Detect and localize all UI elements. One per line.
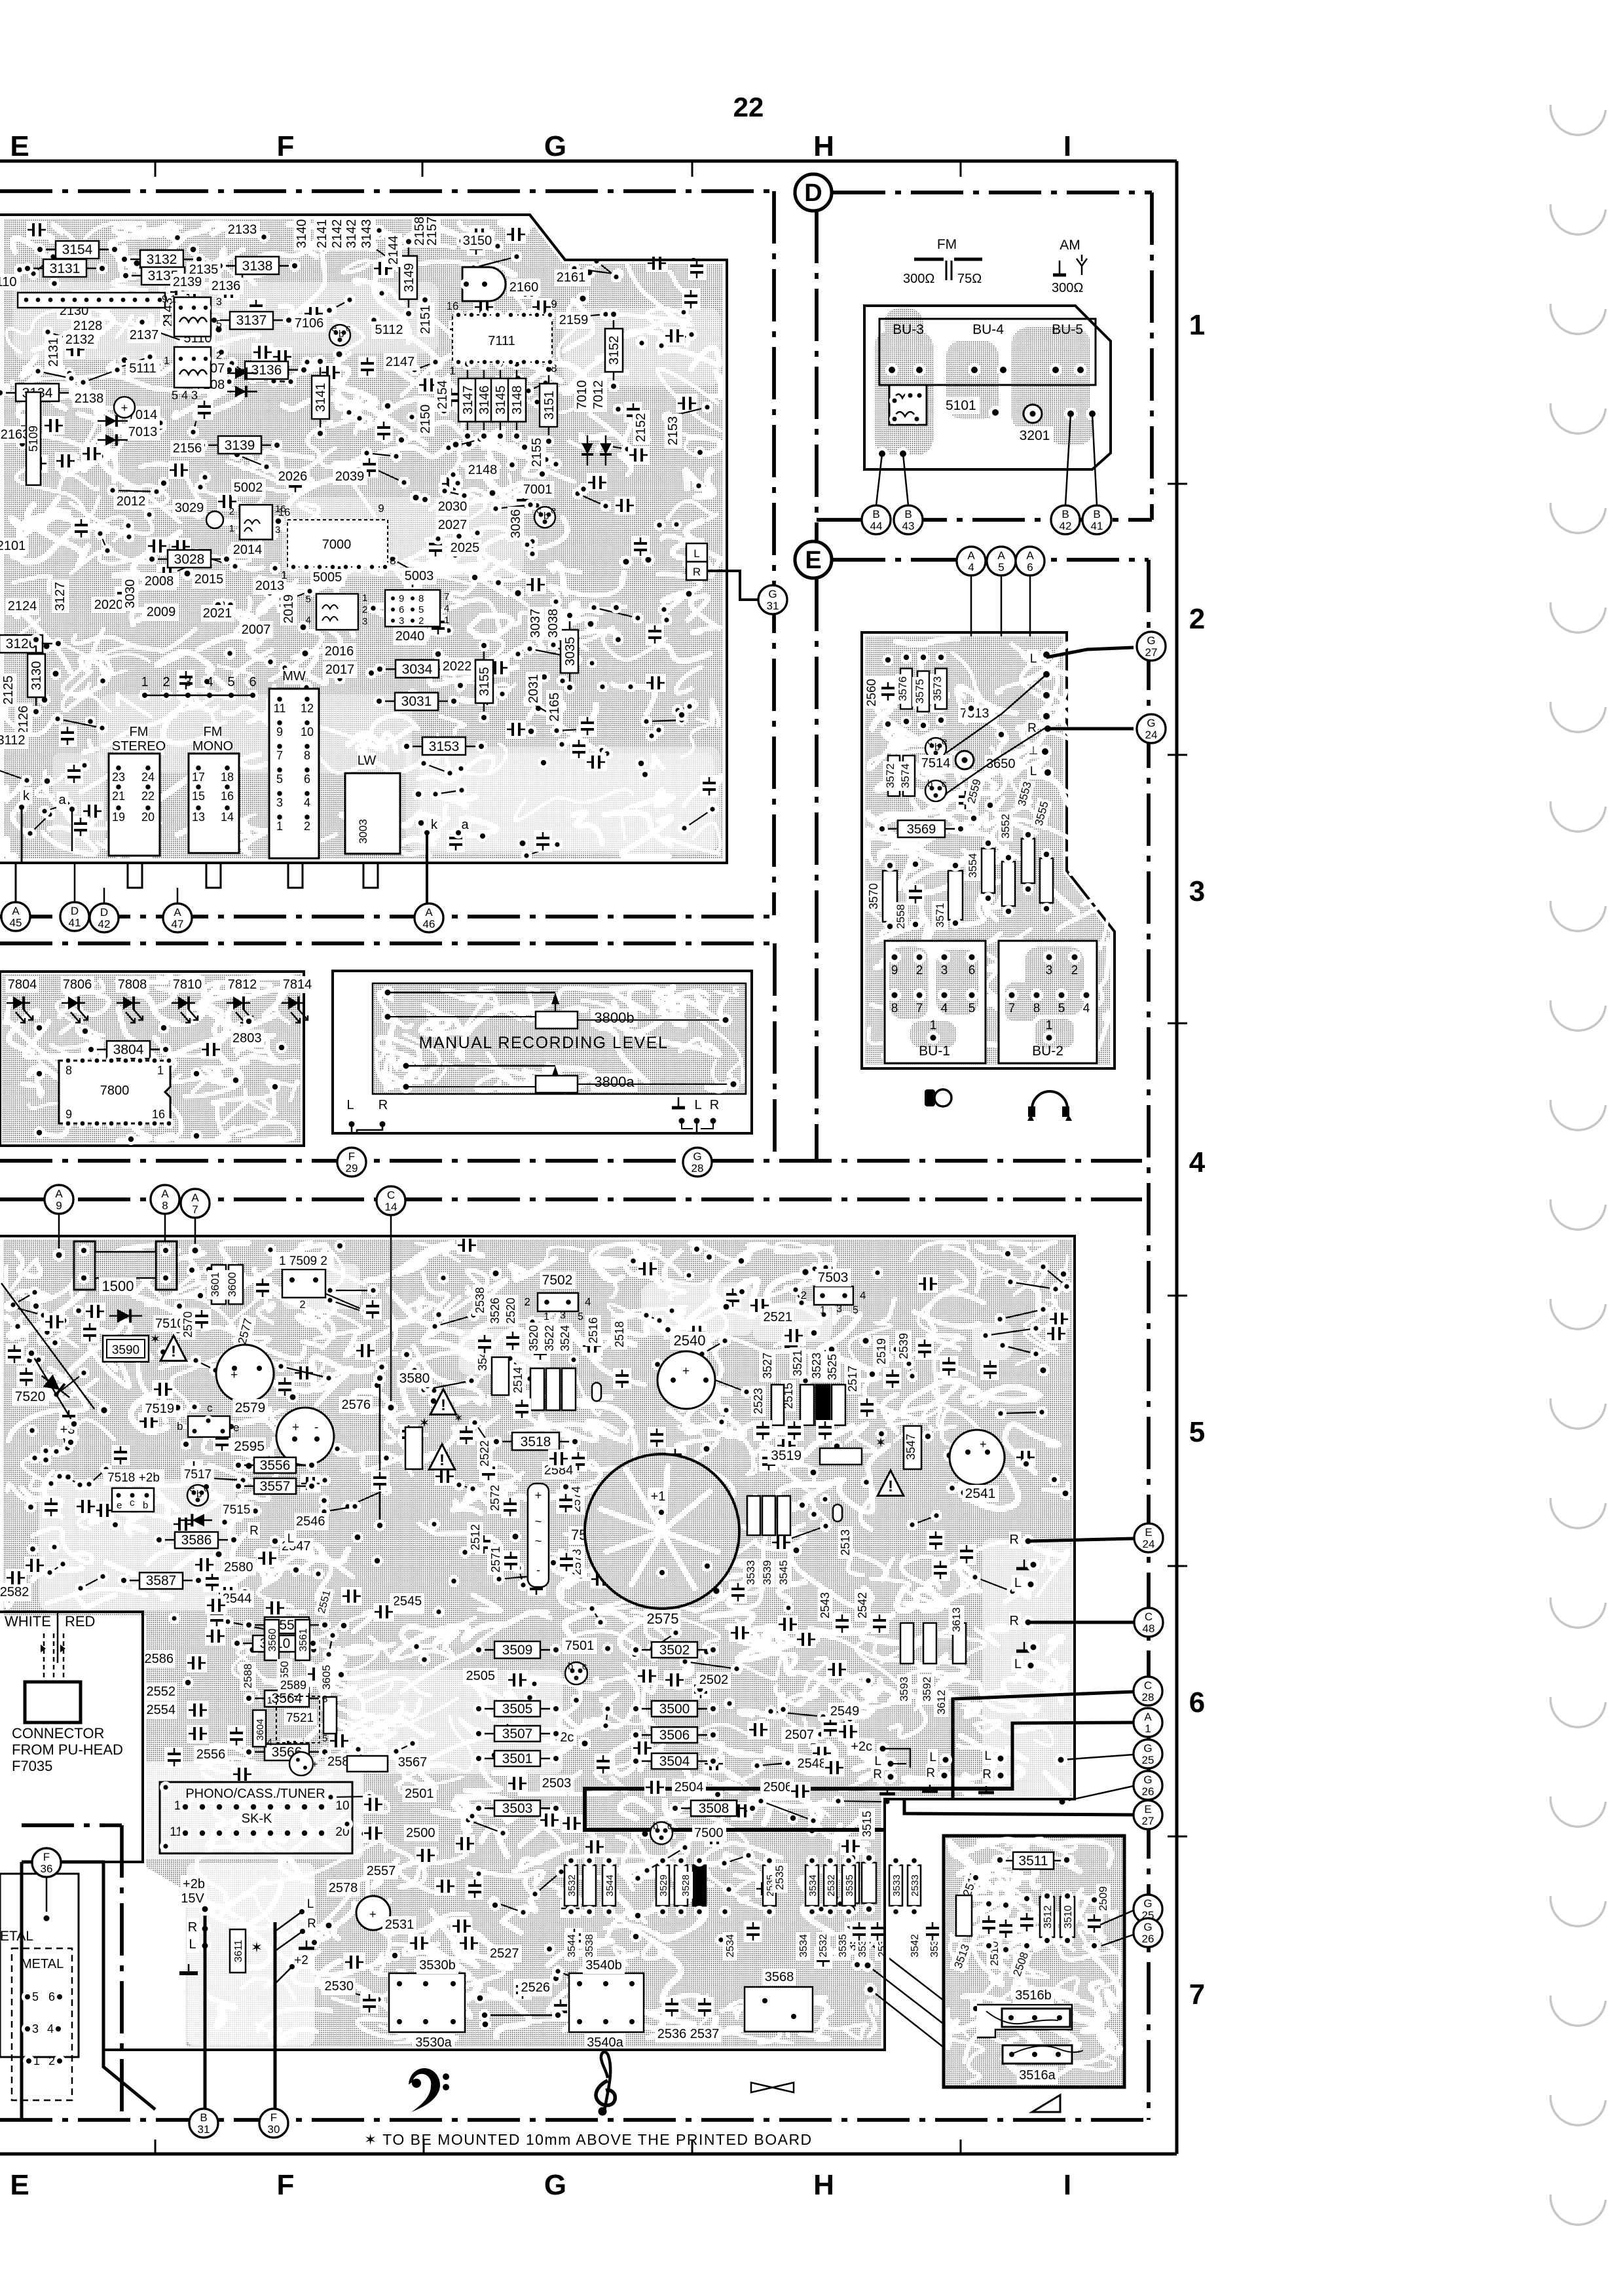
label LW: [357, 752, 376, 769]
section border metal right: [120, 1825, 124, 2120]
resistor pad: [583, 1865, 596, 1906]
svg-text:2531: 2531: [385, 1918, 415, 1932]
svg-text:2139: 2139: [173, 275, 202, 289]
svg-text:-: -: [536, 1563, 540, 1576]
pot 3650: [955, 751, 974, 769]
svg-text:3561: 3561: [298, 1628, 309, 1652]
svg-text:L: L: [189, 1937, 196, 1952]
resistor 3130: [35, 641, 37, 710]
connector BU-3 inner: [879, 319, 1096, 385]
svg-text:R: R: [378, 1098, 388, 1112]
resistor 3556: [240, 1465, 310, 1467]
label 5005: [310, 569, 344, 586]
node k right: [428, 816, 440, 833]
svg-text:45: 45: [10, 917, 22, 929]
svg-text:2021: 2021: [203, 606, 232, 621]
transistor 7500: [650, 1822, 673, 1844]
svg-text:3510: 3510: [1063, 1905, 1074, 1929]
svg-text:6: 6: [969, 964, 976, 977]
connector FM MONO: [203, 723, 222, 740]
cap 2505: [463, 1667, 497, 1685]
resistor 3553b: [1022, 839, 1035, 883]
svg-text:2505: 2505: [466, 1669, 496, 1683]
svg-text:BU-4: BU-4: [972, 322, 1004, 337]
node R: [873, 1766, 884, 1782]
ref B42: [1051, 505, 1080, 534]
svg-text:3544: 3544: [604, 1874, 616, 1896]
svg-text:b: b: [196, 1489, 202, 1500]
svg-text:7: 7: [192, 1203, 198, 1216]
LED 7808: [115, 976, 149, 993]
antenna connector board: [864, 306, 1111, 469]
svg-text:3527: 3527: [761, 1353, 774, 1379]
label 3612: [934, 1688, 949, 1717]
label 2152: [633, 410, 650, 445]
svg-text:A: A: [174, 906, 181, 919]
svg-text:b: b: [934, 742, 940, 753]
svg-text:L: L: [307, 1897, 314, 1911]
resistor 3586: [160, 1539, 232, 1541]
svg-text:3519: 3519: [771, 1448, 802, 1463]
svg-text:3155: 3155: [477, 667, 492, 697]
svg-text:+1: +1: [651, 1489, 666, 1504]
svg-text:A: A: [1144, 1711, 1152, 1723]
svg-text:3542: 3542: [910, 1934, 921, 1958]
connector SK-K PHONO/CASS/TUNER: [160, 1782, 352, 1853]
label 2007: [239, 621, 273, 638]
ref A8: [151, 1185, 179, 1214]
node a right: [459, 816, 471, 833]
svg-text:b: b: [339, 329, 344, 340]
resistor 3529: [656, 1865, 669, 1906]
svg-text:L: L: [1014, 1576, 1022, 1590]
svg-text:2160: 2160: [509, 280, 539, 295]
warning triangles: [430, 1389, 456, 1415]
svg-text:2558: 2558: [895, 904, 907, 929]
svg-text:BU-5: BU-5: [1052, 322, 1083, 337]
svg-text:3151: 3151: [542, 391, 557, 420]
resistor 3137: [215, 319, 287, 321]
svg-text:6: 6: [48, 1990, 55, 2003]
wire 7513 diag: [946, 676, 1045, 753]
section border D right: [1150, 192, 1154, 520]
section border row4: [0, 1159, 1142, 1163]
svg-text:48: 48: [1143, 1622, 1155, 1635]
label 2525b caps: [744, 1921, 762, 1942]
ref A47: [163, 903, 192, 932]
svg-text:7812: 7812: [228, 977, 257, 992]
svg-text:2165: 2165: [547, 693, 562, 722]
label 2139: [170, 274, 204, 291]
resistor 3134: [1, 392, 73, 394]
svg-text:2502: 2502: [699, 1673, 729, 1687]
resistor 3533: [889, 1865, 902, 1906]
svg-text:4: 4: [968, 561, 974, 574]
svg-text:7: 7: [916, 1002, 923, 1015]
section border amp top: [0, 1197, 1142, 1201]
svg-text:8: 8: [162, 1199, 168, 1212]
capacitor 2803: [200, 1040, 221, 1059]
svg-text:1: 1: [33, 2054, 40, 2068]
svg-text:3539: 3539: [761, 1560, 773, 1585]
svg-text:2517: 2517: [846, 1366, 859, 1392]
svg-text:5: 5: [306, 594, 311, 605]
label 3552: [998, 812, 1013, 841]
label 3112: [0, 732, 28, 749]
transistor 7513: [925, 738, 946, 759]
svg-text:3145: 3145: [494, 386, 508, 415]
label 2008: [142, 573, 176, 590]
svg-text:300Ω: 300Ω: [903, 272, 934, 286]
svg-text:3533: 3533: [891, 1874, 902, 1896]
svg-text:3528: 3528: [680, 1874, 692, 1896]
label 2143: [160, 295, 177, 329]
svg-text:L: L: [693, 547, 699, 560]
label 2019: [280, 592, 297, 626]
svg-text:3138: 3138: [242, 259, 273, 274]
svg-text:31: 31: [198, 2123, 210, 2136]
ref circles re-draw: [1, 902, 30, 931]
svg-text:2019: 2019: [282, 594, 296, 624]
resistor 3138: [221, 265, 293, 267]
svg-text:3136: 3136: [251, 363, 282, 378]
label 3036: [507, 507, 525, 541]
svg-text:1: 1: [229, 523, 234, 534]
label 2535: [772, 1863, 787, 1893]
label MW: [284, 668, 303, 685]
svg-text:2595: 2595: [234, 1439, 265, 1454]
svg-text:31: 31: [767, 600, 779, 612]
svg-text:L: L: [1014, 1657, 1022, 1671]
svg-text:14: 14: [221, 811, 234, 824]
label 3515: [859, 1808, 875, 1840]
cap 2508: [1018, 1912, 1036, 1933]
wire to E24: [1028, 1539, 1134, 1541]
label 7012: [590, 378, 607, 412]
svg-text:1: 1: [444, 615, 449, 626]
svg-text:FM: FM: [937, 237, 957, 252]
label 2584: [542, 1462, 576, 1479]
resistor 3035: [569, 617, 571, 686]
label 2133: [225, 221, 259, 238]
headphones icon: [1032, 1091, 1067, 1109]
svg-text:!: !: [888, 1478, 893, 1495]
svg-text:D: D: [71, 905, 79, 917]
resistor 3141: [320, 363, 322, 432]
capacitor 2558: [906, 884, 925, 905]
pads L R to G refs: [1040, 648, 1053, 661]
wire to G25: [1061, 1755, 1134, 1760]
IC 7521: [276, 1696, 320, 1743]
copper blobs: [874, 308, 1094, 455]
resistor 3569: [883, 828, 959, 830]
svg-text:B: B: [1061, 508, 1069, 520]
svg-text:7806: 7806: [63, 977, 92, 992]
svg-text:5112: 5112: [375, 323, 403, 337]
svg-text:3: 3: [1189, 875, 1205, 907]
svg-text:7810: 7810: [173, 977, 202, 992]
svg-text:3575: 3575: [913, 679, 926, 704]
svg-text:3: 3: [184, 675, 191, 689]
svg-text:27: 27: [1145, 646, 1158, 659]
warning triangle: [877, 1470, 904, 1496]
ref G31: [758, 585, 787, 614]
svg-text:2541: 2541: [965, 1486, 996, 1501]
svg-text:c: c: [582, 1661, 587, 1672]
svg-text:8: 8: [891, 1002, 898, 1015]
svg-text:✶ TO BE MOUNTED 10mm ABOVE: ✶ TO BE MOUNTED 10mm ABOVE THE PRINTED B…: [364, 2131, 813, 2148]
label 3542: [908, 1932, 922, 1960]
ref A7: [181, 1189, 210, 1218]
border ruler top: [0, 160, 1177, 163]
svg-text:3587: 3587: [146, 1573, 177, 1588]
svg-text:2579: 2579: [235, 1400, 266, 1415]
ground: [887, 1787, 889, 1794]
svg-text:4: 4: [941, 1002, 948, 1015]
svg-text:3530b: 3530b: [419, 1958, 456, 1973]
svg-text:3572: 3572: [884, 763, 896, 788]
big cap 2575: [585, 1454, 739, 1609]
svg-text:2539: 2539: [897, 1333, 910, 1359]
svg-text:RED: RED: [65, 1613, 95, 1630]
svg-text:2008: 2008: [145, 574, 174, 589]
svg-text:2161: 2161: [557, 270, 586, 285]
ref C14: [377, 1186, 405, 1215]
svg-text:A: A: [967, 549, 975, 562]
wires from A4 A5 A6: [970, 575, 972, 707]
svg-text:AM: AM: [1060, 238, 1080, 253]
node R3: [982, 1766, 993, 1782]
svg-text:B: B: [200, 2111, 207, 2124]
svg-text:3: 3: [32, 2022, 39, 2035]
resistor 3534: [805, 1865, 819, 1906]
svg-text:2156: 2156: [173, 441, 202, 456]
label 3533: [855, 1932, 870, 1960]
label 2516: [585, 1315, 601, 1346]
svg-text:2016: 2016: [325, 644, 354, 659]
svg-text:6: 6: [1189, 1686, 1205, 1719]
svg-text:FROM PU-HEAD: FROM PU-HEAD: [12, 1741, 123, 1758]
svg-text:3035: 3035: [563, 637, 578, 666]
resistor 3151: [548, 371, 550, 440]
resistor 3149: [408, 243, 410, 312]
svg-text:2152: 2152: [634, 413, 648, 443]
wire from C14: [390, 1215, 392, 1408]
svg-text:7804: 7804: [8, 977, 37, 992]
treble clef: [596, 2052, 615, 2115]
svg-text:3140: 3140: [295, 219, 309, 249]
svg-text:B: B: [1093, 508, 1100, 520]
svg-text:2148: 2148: [468, 463, 498, 477]
svg-text:2575: 2575: [647, 1611, 679, 1627]
svg-text:3533: 3533: [745, 1560, 757, 1585]
svg-text:2159: 2159: [559, 313, 589, 327]
svg-text:3601: 3601: [209, 1272, 221, 1297]
svg-text:3500: 3500: [659, 1702, 690, 1717]
svg-text:2535: 2535: [773, 1865, 786, 1890]
label 3580: [397, 1370, 433, 1387]
label 2131: [45, 335, 62, 369]
svg-text:2: 2: [362, 604, 367, 615]
cap 2531: [409, 1934, 430, 1952]
ref C28: [1134, 1677, 1162, 1705]
label 7110: [0, 274, 20, 291]
label 7000: [310, 538, 344, 555]
labels 2550 2588 2589 3605: [277, 1659, 292, 1688]
svg-text:2: 2: [229, 506, 234, 517]
svg-text:E: E: [10, 130, 29, 162]
ground2: [929, 1785, 931, 1791]
svg-text:METAL: METAL: [21, 1957, 64, 1971]
svg-text:7110: 7110: [0, 275, 17, 289]
svg-text:3521: 3521: [791, 1350, 804, 1376]
svg-text:2124: 2124: [8, 599, 37, 613]
svg-text:1: 1: [164, 355, 170, 367]
svg-text:c: c: [346, 323, 351, 334]
IC 7502: [538, 1293, 578, 1311]
svg-text:G: G: [1147, 634, 1155, 647]
svg-text:42: 42: [98, 918, 111, 930]
svg-text:3029: 3029: [175, 501, 204, 515]
svg-text:7520: 7520: [15, 1389, 46, 1404]
svg-text:3613: 3613: [950, 1607, 963, 1632]
svg-text:B: B: [904, 508, 912, 520]
svg-text:3532: 3532: [566, 1874, 578, 1896]
svg-text:13: 13: [192, 811, 205, 824]
wire from A8: [164, 1214, 166, 1247]
label 2128: [71, 318, 105, 335]
svg-text:1: 1: [1189, 309, 1205, 341]
svg-text:5: 5: [418, 604, 424, 615]
svg-text:3557: 3557: [260, 1479, 291, 1494]
svg-text:2154: 2154: [435, 380, 450, 410]
svg-text:28: 28: [692, 1162, 704, 1175]
ref G26: [1134, 1771, 1162, 1800]
svg-text:7521: 7521: [286, 1711, 314, 1725]
svg-text:46: 46: [423, 918, 435, 930]
ref G28: [683, 1148, 712, 1176]
wire 3530-3540: [485, 2014, 558, 2016]
section border E right / wire bus: [1147, 560, 1151, 2120]
labels 3502 2502 3500 3506 3504: [637, 1649, 712, 1651]
svg-text:5: 5: [216, 319, 222, 330]
warning triangle: [160, 1336, 187, 1361]
svg-text:BU-2: BU-2: [1032, 1044, 1063, 1059]
svg-text:3: 3: [362, 616, 367, 627]
svg-text:4: 4: [304, 796, 310, 809]
svg-text:A: A: [425, 906, 433, 919]
svg-text:2133: 2133: [228, 223, 257, 237]
svg-text:3556: 3556: [260, 1458, 291, 1473]
svg-text:3516a: 3516a: [1019, 2068, 1056, 2083]
wire to E27: [904, 1799, 1134, 1815]
svg-text:A: A: [161, 1188, 169, 1200]
resistors 3593 3592: [900, 1623, 913, 1664]
svg-text:7502: 7502: [542, 1273, 573, 1288]
resistor 2525: [1025, 1865, 1039, 1906]
ref D42: [90, 903, 119, 932]
svg-text:3509: 3509: [502, 1643, 533, 1658]
label 2135: [187, 261, 221, 278]
svg-text:3152: 3152: [607, 336, 621, 365]
svg-text:7814: 7814: [283, 977, 312, 992]
svg-text:3604: 3604: [255, 1719, 266, 1740]
svg-text:2512: 2512: [469, 1524, 482, 1550]
svg-text:2572: 2572: [489, 1485, 502, 1511]
resistor 3155: [483, 647, 485, 716]
svg-text:2542: 2542: [856, 1592, 869, 1618]
svg-text:1 7509 2: 1 7509 2: [279, 1254, 327, 1268]
svg-text:3612: 3612: [935, 1690, 948, 1715]
svg-text:3523: 3523: [810, 1353, 823, 1379]
resistor 3518: [498, 1441, 574, 1443]
wires up from refs: [15, 864, 17, 902]
ref A45: [1, 902, 30, 931]
svg-text:L: L: [287, 1532, 295, 1546]
svg-text:3037: 3037: [528, 609, 543, 638]
svg-text:G: G: [1143, 1774, 1152, 1786]
ref A1: [1134, 1708, 1162, 1737]
svg-text:G: G: [1147, 717, 1155, 729]
svg-text:2519: 2519: [875, 1338, 888, 1364]
IC 7503: [814, 1286, 853, 1305]
svg-text:2545: 2545: [393, 1594, 422, 1609]
svg-text:⊥: ⊥: [1029, 744, 1039, 757]
svg-text:2532: 2532: [826, 1874, 837, 1896]
svg-text:2544: 2544: [223, 1592, 252, 1606]
resistor 3604: [253, 1710, 266, 1747]
cap 2541: [950, 1430, 1005, 1485]
svg-text:2506: 2506: [764, 1780, 793, 1795]
svg-text:WHITE: WHITE: [5, 1613, 51, 1630]
svg-text:3526: 3526: [489, 1298, 502, 1324]
wire from A7: [194, 1218, 196, 1250]
svg-text:A: A: [12, 905, 20, 917]
svg-text:3507: 3507: [502, 1726, 533, 1741]
IC 7518: [112, 1488, 154, 1512]
svg-text:R: R: [307, 1917, 316, 1931]
ref A5: [987, 547, 1016, 575]
copper area: [866, 636, 1111, 1065]
ref B31: [189, 2109, 218, 2138]
svg-text:2526: 2526: [521, 1980, 551, 1995]
svg-text:4: 4: [47, 2022, 54, 2035]
section border E top: [833, 558, 1149, 562]
label 2126: [15, 703, 32, 737]
svg-text:MONO: MONO: [193, 739, 233, 754]
svg-text:7: 7: [444, 591, 449, 602]
svg-text:7510: 7510: [155, 1317, 185, 1331]
svg-text:FM: FM: [204, 725, 223, 739]
switch 3516b: [977, 2005, 1072, 2037]
IC 7800: [59, 1061, 170, 1123]
svg-text:-: -: [314, 1421, 318, 1434]
label 7111: [478, 327, 512, 344]
svg-text:L: L: [929, 1751, 936, 1764]
coil 2516: [592, 1383, 601, 1401]
svg-text:3148: 3148: [510, 386, 525, 415]
svg-text:3143: 3143: [360, 219, 374, 249]
resistor 3509: [480, 1649, 555, 1651]
svg-text:MW: MW: [282, 669, 306, 683]
svg-text:2040: 2040: [396, 629, 425, 644]
svg-text:2582: 2582: [0, 1585, 29, 1599]
resistor 3148: [516, 365, 518, 435]
svg-text:3153: 3153: [429, 739, 460, 754]
label 2148: [466, 462, 500, 479]
svg-text:16: 16: [275, 503, 286, 515]
svg-text:8: 8: [1033, 1002, 1041, 1015]
